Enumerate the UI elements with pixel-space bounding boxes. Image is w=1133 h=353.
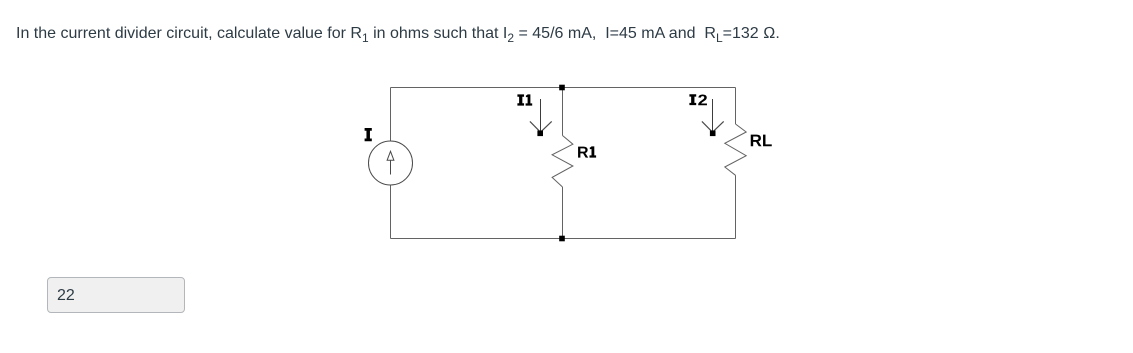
current arrow I2 [702, 99, 724, 132]
wire right lower segment [735, 175, 737, 238]
resistor R1 (zigzag) [552, 136, 573, 188]
current arrow I1 [530, 99, 552, 132]
node junction dot top [559, 85, 565, 91]
label R1 [578, 146, 596, 157]
wire right upper segment [735, 88, 737, 125]
resistor RL (zigzag) [725, 124, 746, 175]
node junction dot bottom [559, 236, 565, 242]
label RL [751, 135, 772, 147]
label I2 [689, 94, 707, 105]
wire bottom rail [391, 238, 736, 240]
wire left upper segment [390, 88, 392, 142]
wire left lower segment [390, 185, 392, 239]
label I (current source) [365, 128, 372, 141]
label I1 [517, 94, 532, 105]
wire top (node A to node B rail) [391, 87, 736, 89]
question text [16, 22, 780, 46]
current source I (circle with up arrow) [369, 141, 413, 185]
wire middle lower segment [562, 187, 564, 239]
answer input box [47, 277, 185, 313]
wire middle upper segment [562, 88, 564, 136]
